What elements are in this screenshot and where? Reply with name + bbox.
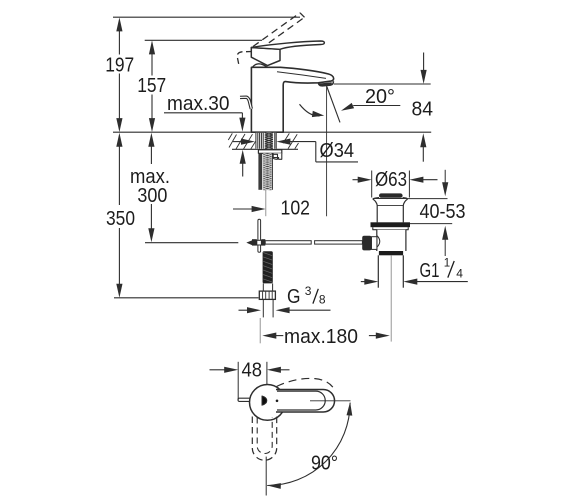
- svg-text:3: 3: [305, 284, 312, 298]
- svg-text:90°: 90°: [311, 452, 338, 475]
- svg-text:max.30: max.30: [167, 92, 230, 115]
- svg-text:8: 8: [319, 292, 326, 306]
- svg-text:350: 350: [106, 207, 135, 230]
- svg-text:102: 102: [281, 197, 311, 220]
- svg-text:4: 4: [456, 266, 463, 280]
- svg-text:Ø63: Ø63: [375, 168, 407, 191]
- svg-text:max.180: max.180: [284, 325, 358, 348]
- svg-text:197: 197: [105, 54, 134, 77]
- svg-text:G: G: [287, 285, 301, 308]
- svg-text:Ø34: Ø34: [320, 139, 355, 162]
- svg-text:84: 84: [412, 98, 434, 121]
- svg-text:48: 48: [242, 359, 263, 382]
- svg-text:G1: G1: [420, 259, 440, 282]
- svg-text:1: 1: [444, 258, 450, 270]
- svg-text:40-53: 40-53: [420, 200, 466, 223]
- svg-text:20°: 20°: [365, 85, 395, 108]
- svg-text:157: 157: [137, 74, 166, 97]
- svg-text:300: 300: [137, 184, 167, 207]
